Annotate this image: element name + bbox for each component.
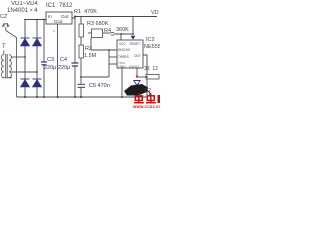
wire R5 down to bus: [146, 79, 148, 97]
junction out R5: [146, 76, 148, 78]
label IC1: [46, 3, 55, 9]
label Gnd: [54, 19, 63, 24]
junction bus col2: [36, 96, 38, 98]
label 1.5M: [84, 53, 96, 59]
junction trig branch: [80, 76, 82, 78]
plug CZ symbol: [3, 23, 17, 97]
wire secondary top to column 1: [12, 56, 25, 58]
diode to reset: [131, 36, 136, 40]
wire CVOLT down: [136, 68, 138, 76]
watermark char 2: [146, 93, 156, 102]
watermark partial char: [158, 95, 162, 103]
label 1N4001 x4: [7, 8, 38, 14]
wire OUT pin: [143, 55, 147, 77]
label NE555: [144, 44, 161, 50]
wire IC1 Out to top line: [72, 17, 75, 19]
artifact mark: [53, 28, 55, 33]
wire IC2 GND down: [121, 68, 123, 97]
junction C3 top: [43, 19, 45, 21]
wire R4 right lead: [102, 32, 111, 34]
junction bus IC1 gnd: [57, 96, 59, 98]
wire R4 left lead down: [90, 38, 92, 51]
wire to VCC and reset: [114, 33, 133, 35]
capacitor C5 plates: [78, 84, 86, 87]
wire C5 bottom lead: [80, 88, 82, 97]
watermark url text: [133, 105, 165, 109]
pin label OUT: [134, 54, 141, 58]
label C5 470n: [89, 83, 110, 89]
label 33 12: [144, 66, 158, 72]
label In: [48, 14, 52, 19]
wire IC1 Gnd down: [57, 24, 59, 97]
pin label CVOLT: [129, 65, 139, 69]
wire plug cord: [6, 31, 17, 98]
label R3 680K: [87, 21, 108, 27]
junction reset drop: [132, 33, 134, 35]
junction bridge top col1: [24, 19, 26, 21]
wire R3-R2 lead: [80, 37, 82, 45]
wire TRIG pin: [109, 63, 117, 65]
label R2: [85, 46, 92, 52]
pin label RESET: [130, 42, 141, 46]
transformer T1: [1, 51, 12, 79]
wire cvolt junction to R5: [137, 76, 146, 78]
wire left pin link vertical: [108, 50, 110, 77]
wire bridge column 1: [24, 20, 26, 98]
resistor R4 body: [92, 29, 103, 38]
label 360K: [116, 27, 129, 33]
wire C4 branch: [74, 18, 76, 63]
pin label TRIG: [118, 61, 125, 65]
capacitor C3 plates: [41, 62, 47, 65]
IC1 7812 box: [46, 12, 72, 24]
label Out: [61, 14, 68, 19]
diode VD1: [21, 38, 30, 46]
label C4: [60, 57, 67, 63]
junction ac2 col2: [36, 71, 38, 73]
pin label DISCHG: [118, 48, 130, 52]
wire ground bus: [17, 96, 148, 98]
junction vcc riser: [120, 33, 122, 35]
resistor R2 body: [79, 45, 84, 58]
diode small under CVOLT: [134, 81, 140, 86]
text labels: [0, 0, 160, 110]
label IC2: [146, 37, 155, 43]
junction dot red cvolt: [136, 75, 138, 77]
label CZ: [0, 14, 7, 20]
wire top rail R1 line: [75, 16, 157, 18]
wire bridge column 2: [36, 20, 38, 98]
wire reset drop from top rail: [132, 17, 134, 36]
pin label VCC: [119, 42, 126, 46]
junction bus C4: [74, 96, 76, 98]
junction bridge top col2: [36, 19, 38, 21]
wire R3 top lead: [80, 17, 82, 25]
diode VD3: [21, 79, 30, 87]
label 2 2: [144, 88, 151, 94]
wire VCC riser: [120, 34, 122, 40]
capacitor small marks near R4: [111, 33, 114, 36]
watermark char 1: [134, 93, 144, 102]
label C4 220u: [58, 65, 70, 71]
pin label GND: [119, 65, 126, 69]
junction ac1 col1: [24, 56, 26, 58]
wire top bar bridge to IC1 In: [25, 19, 46, 21]
wire secondary bottom to column 2: [12, 71, 37, 73]
wire R2 bottom lead: [80, 58, 82, 84]
capacitor C4 plates: [72, 63, 79, 66]
wire R4 left lead: [88, 32, 92, 34]
wire DISCHG pin: [91, 49, 117, 51]
watermark cap black: [124, 84, 148, 96]
label T: [2, 44, 6, 50]
pin label THRES: [118, 55, 129, 59]
junction out rail: [74, 16, 76, 18]
resistor R5 body: [146, 75, 159, 80]
wire THRES pin: [109, 56, 117, 58]
IC2 NE555 box: [117, 40, 143, 68]
label VD5: [151, 10, 159, 16]
diode VD4: [33, 79, 42, 87]
wire trig feed horizontal: [81, 76, 109, 78]
junction bus col1: [24, 96, 26, 98]
junction bus C3: [43, 96, 45, 98]
label C3: [47, 57, 54, 63]
label C3 220u: [44, 65, 56, 71]
label R1 470K: [74, 9, 97, 15]
junction dischg link: [108, 49, 110, 51]
label R4: [104, 28, 111, 34]
junction bus C5: [80, 96, 82, 98]
label 7812: [59, 3, 72, 9]
resistor R3 body: [79, 24, 84, 37]
junction bus IC2 gnd: [121, 96, 123, 98]
wire C3 branch: [43, 20, 45, 62]
diode VD2: [33, 38, 42, 46]
label VD1-VD4: [11, 1, 38, 7]
